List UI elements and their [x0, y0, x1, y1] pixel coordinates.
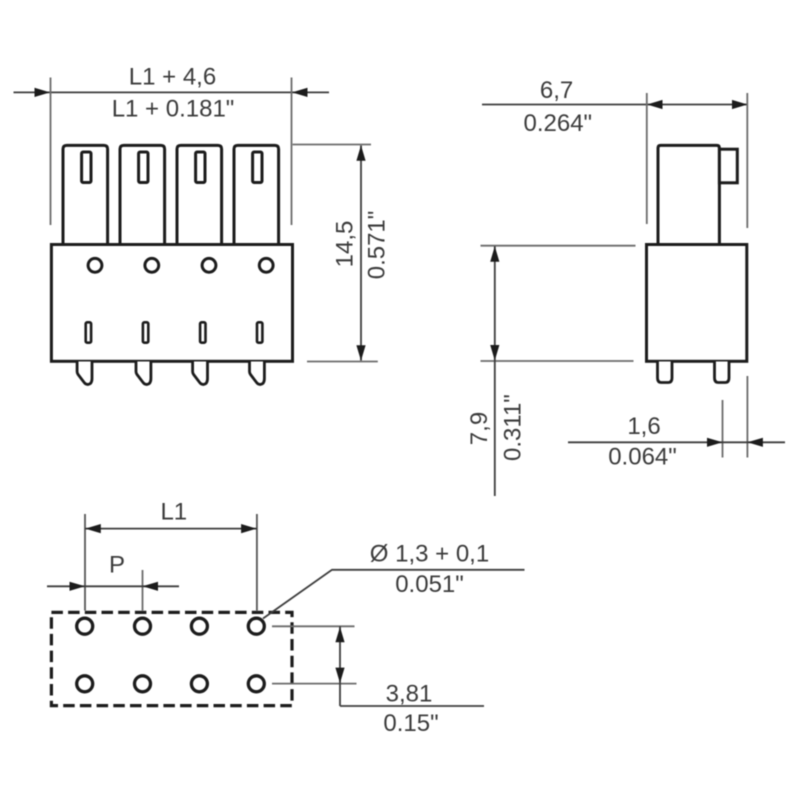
- svg-text:L1 + 0.181": L1 + 0.181": [112, 96, 235, 123]
- tower 4 slot: [253, 152, 262, 183]
- drill hole row1 col4: [248, 618, 264, 634]
- arrow right of dimension L1: [241, 524, 257, 533]
- svg-text:0.311": 0.311": [499, 394, 526, 461]
- dimension line 7,9 (vertical): [494, 246, 496, 496]
- dimension line 14,5 (vertical): [360, 146, 362, 361]
- tower 1 (plug housing): [63, 145, 108, 244]
- extension line right (side width 6,7): [746, 93, 748, 228]
- arrow down of dimension 7,9: [490, 345, 499, 361]
- dimension line L1: [85, 528, 257, 530]
- drill hole row2 col1: [77, 676, 93, 692]
- extension line right (front view width): [291, 78, 293, 226]
- tower 3 slot: [196, 152, 205, 183]
- svg-text:7,9: 7,9: [466, 412, 493, 445]
- extension line bottom (height 7,9): [481, 360, 634, 362]
- arrow right of dimension 6,7: [732, 100, 748, 109]
- dimension line 6,7: [482, 104, 748, 106]
- drill hole row1 col2: [135, 618, 151, 634]
- svg-text:P: P: [109, 552, 125, 579]
- drill hole row2 col4: [248, 676, 264, 692]
- arrow left of dimension L1: [85, 524, 101, 533]
- arrow left of dimension 1,6: [707, 438, 723, 447]
- drill hole row2 col2: [135, 676, 151, 692]
- actuation hole 1: [88, 258, 102, 272]
- PCB outline (dashed): [51, 612, 292, 705]
- leader line (hole diameter callout): [263, 570, 525, 619]
- extension line row2 (row spacing 3,81): [272, 683, 357, 685]
- arrow right of dimension 1,6: [747, 438, 763, 447]
- dimension line L1+4,6 (top width dimension): [14, 91, 330, 93]
- extension line right (pin pitch 1,6): [746, 376, 748, 458]
- base slot 2: [143, 322, 148, 342]
- arrow right of dimension P: [143, 582, 159, 591]
- arrow right of dimension L1+4,6: [292, 88, 308, 97]
- arrow down of dimension 14,5: [356, 345, 365, 361]
- tower 1 slot: [82, 152, 91, 183]
- extension line row1 (row spacing 3,81): [272, 625, 355, 627]
- arrow up of dimension 7,9: [490, 246, 499, 262]
- solder pin 2: [136, 362, 151, 385]
- extension line top (height 7,9): [481, 245, 636, 247]
- tower 3: [177, 145, 222, 244]
- svg-text:Ø 1,3 + 0,1: Ø 1,3 + 0,1: [370, 541, 489, 568]
- tower 4: [234, 145, 279, 244]
- extension line bottom (height 14,5): [307, 361, 378, 363]
- base slot 1: [86, 322, 91, 342]
- side latch tab: [719, 149, 737, 183]
- svg-text:0.15": 0.15": [383, 710, 438, 737]
- extension line left (pin pitch 1,6): [722, 400, 724, 458]
- extension line top (height 14,5): [293, 144, 371, 146]
- svg-text:6,7: 6,7: [540, 77, 573, 104]
- dimension line P: [47, 585, 179, 587]
- arrow up of dimension 14,5: [356, 145, 365, 161]
- arrow down of dimension 3,81: [335, 668, 344, 684]
- extension line left (side width 6,7): [646, 93, 648, 224]
- tower 2: [120, 145, 165, 244]
- extension line right (L1 span): [256, 514, 258, 611]
- svg-text:1,6: 1,6: [627, 413, 660, 440]
- solder pin 1 (front view hook): [77, 362, 92, 385]
- text shelf line 3,81: [340, 705, 484, 707]
- actuation hole 4: [259, 258, 273, 272]
- solder pin 3: [193, 362, 208, 385]
- side pin 1: [658, 362, 673, 383]
- svg-text:0.571": 0.571": [364, 211, 391, 280]
- drill hole row1 col3: [191, 618, 207, 634]
- svg-text:L1: L1: [160, 499, 187, 526]
- drill hole row1 col1: [77, 618, 93, 634]
- actuation hole 2: [145, 258, 159, 272]
- extension line left (front view width): [50, 78, 52, 226]
- arrow left of dimension L1+4,6: [35, 88, 51, 97]
- extension line right (pitch P): [142, 570, 144, 611]
- tower 2 slot: [139, 152, 148, 183]
- svg-text:0.051": 0.051": [395, 571, 464, 598]
- side base body: [647, 245, 747, 362]
- base body (front view): [51, 245, 292, 362]
- actuation hole 3: [202, 258, 216, 272]
- dimension line 3,81 (vertical): [339, 626, 341, 706]
- side pin 2: [715, 362, 730, 383]
- arrow up of dimension 3,81: [335, 627, 344, 643]
- svg-text:L1 + 4,6: L1 + 4,6: [129, 64, 216, 91]
- svg-text:3,81: 3,81: [386, 681, 433, 708]
- base slot 3: [200, 322, 205, 342]
- side tower (plug housing side): [658, 145, 719, 244]
- base slot 4: [257, 322, 262, 342]
- svg-text:0.064": 0.064": [608, 444, 677, 471]
- drill hole row2 col3: [191, 676, 207, 692]
- solder pin 4: [250, 362, 265, 385]
- svg-text:14,5: 14,5: [332, 221, 359, 268]
- dimension line 1,6: [568, 441, 785, 443]
- arrow left of dimension P: [70, 582, 86, 591]
- svg-text:0.264": 0.264": [524, 110, 593, 137]
- extension line left (L1 span): [84, 514, 86, 611]
- arrow left of dimension 6,7: [647, 100, 663, 109]
